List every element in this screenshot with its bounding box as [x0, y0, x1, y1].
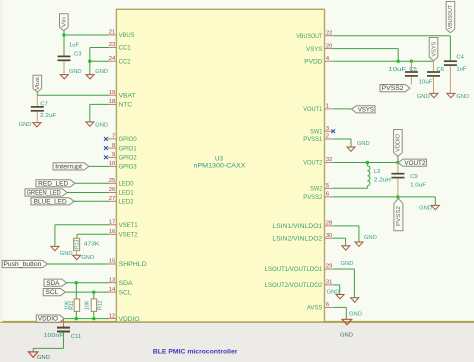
svg-text:22: 22 — [326, 31, 332, 37]
svg-text:SCL: SCL — [45, 290, 59, 296]
svg-text:23: 23 — [109, 42, 115, 48]
svg-text:RED_LED: RED_LED — [38, 181, 69, 187]
svg-text:C4: C4 — [456, 55, 464, 61]
svg-text:31: 31 — [326, 280, 332, 286]
wire Vin to VBUS pin 21 — [66, 34, 109, 36]
ground below CC2 — [86, 75, 94, 79]
svg-text:6: 6 — [326, 302, 329, 308]
svg-text:GPIO3: GPIO3 — [119, 165, 138, 171]
ground below C6 — [430, 93, 438, 97]
svg-text:R12: R12 — [98, 300, 104, 310]
wire CC1-CC2-GND vertical — [89, 48, 91, 75]
node junction VDDIO/R12 — [92, 317, 95, 320]
svg-text:PVSS1: PVSS1 — [303, 137, 323, 143]
svg-text:VBUSOUT: VBUSOUT — [296, 34, 322, 40]
wire VSET2 to R13 — [77, 233, 109, 235]
pin 18 NTC (left) — [108, 103, 117, 105]
ground below C4 — [447, 93, 455, 97]
pin 21 VBUS (left) — [108, 34, 117, 36]
svg-text:10uF: 10uF — [419, 79, 433, 85]
wire AVSS to GND — [333, 306, 346, 308]
wire VDDIO to pin 12 — [65, 318, 109, 320]
svg-text:GND: GND — [364, 235, 377, 241]
capacitor C9 1.0uF — [397, 163, 399, 174]
svg-text:14: 14 — [109, 287, 116, 293]
svg-text:GND: GND — [327, 289, 340, 295]
svg-text:VSYS: VSYS — [358, 107, 374, 113]
svg-text:C6: C6 — [437, 67, 445, 73]
global label Interrupt — [53, 163, 89, 170]
pin 4 PVDD (right) — [325, 60, 334, 62]
ground below C3 — [60, 75, 68, 79]
svg-text:5: 5 — [326, 183, 329, 189]
svg-text:VOUT2: VOUT2 — [303, 161, 323, 167]
svg-text:18: 18 — [109, 99, 115, 105]
wire VOUT1 to VSYS label — [333, 108, 351, 110]
global label BLUE_LED — [31, 198, 74, 205]
svg-text:VOUT2: VOUT2 — [404, 161, 426, 167]
svg-text:9: 9 — [112, 152, 115, 158]
svg-text:19: 19 — [109, 90, 115, 96]
capacitor C5 10uF — [410, 61, 412, 71]
pin 10 GPIO3 (left) — [108, 165, 117, 167]
svg-text:NTC: NTC — [119, 103, 133, 109]
wire R13 to GND — [76, 251, 78, 256]
svg-text:2: 2 — [326, 134, 329, 140]
global label Push_button — [2, 260, 47, 267]
pin 15 SHPHLD (left) — [108, 263, 117, 265]
svg-text:25: 25 — [109, 178, 115, 184]
svg-text:VSYS: VSYS — [431, 41, 437, 57]
svg-text:C9: C9 — [410, 174, 418, 180]
capacitor C6 10uF — [433, 61, 435, 71]
svg-text:GPIO2: GPIO2 — [119, 156, 138, 162]
pin 26 LED1 (left) — [108, 192, 117, 194]
ground below C7 — [33, 123, 41, 127]
pin 12 VDDIO (left) — [108, 318, 117, 320]
svg-text:C11: C11 — [71, 334, 81, 340]
svg-text:SHPHLD: SHPHLD — [119, 262, 148, 268]
svg-text:GND: GND — [341, 261, 354, 267]
svg-text:SCL: SCL — [119, 290, 133, 296]
wire PVDD — [333, 60, 433, 62]
svg-text:LSOUT2/VOUTLDO2: LSOUT2/VOUTLDO2 — [265, 283, 323, 289]
svg-text:1uF: 1uF — [456, 66, 466, 72]
resistor R11 10K — [75, 283, 77, 299]
svg-text:PVSS2: PVSS2 — [382, 86, 405, 92]
pin 25 LED0 (left) — [108, 182, 117, 184]
svg-text:GND: GND — [419, 205, 432, 211]
ground below C11 — [28, 352, 38, 357]
svg-text:GND: GND — [340, 333, 353, 339]
canvas area outside sheet (bottom) — [0, 323, 474, 362]
pin 30 LSIN2/VINLDO2 (right) — [325, 237, 334, 239]
pin 7 GPIO0 (left) — [108, 138, 117, 140]
svg-text:21: 21 — [109, 30, 115, 36]
power symbol VDDIO vertical — [394, 130, 403, 157]
global label VDDIO — [36, 315, 64, 322]
svg-text:GND: GND — [81, 255, 94, 261]
svg-text:2.2uH: 2.2uH — [374, 178, 391, 184]
pin 16 VSET2 (left) — [108, 233, 117, 235]
svg-text:2.2uF: 2.2uF — [40, 113, 56, 119]
wire VOUT2 — [333, 162, 401, 164]
power symbol PVSS2 vertical — [394, 198, 403, 230]
svg-text:C7: C7 — [40, 101, 48, 107]
svg-text:LED2: LED2 — [119, 200, 135, 206]
svg-text:17: 17 — [109, 220, 115, 226]
svg-text:6: 6 — [326, 192, 329, 198]
svg-text:GND: GND — [95, 122, 108, 128]
wire C11 to GND — [63, 332, 65, 348]
svg-text:GND: GND — [456, 94, 469, 100]
no-connect SW1 — [331, 129, 335, 133]
wire VBUSOUT down to C4 — [449, 36, 451, 61]
pin 22 VBUSOUT (right) — [325, 35, 334, 37]
svg-text:R13: R13 — [74, 240, 80, 250]
global label GREEN_LED — [25, 189, 67, 196]
pin 17 VSET1 (left) — [108, 224, 117, 226]
svg-text:100nF: 100nF — [44, 333, 64, 339]
svg-text:nPM1300-CAXX: nPM1300-CAXX — [194, 163, 246, 170]
svg-text:1: 1 — [326, 104, 329, 110]
ground below LSOUT2 — [336, 295, 344, 299]
pin 20 VSYS (right) — [325, 48, 334, 50]
svg-text:SDA: SDA — [119, 281, 133, 287]
pin 8 GPIO1 (left) — [108, 147, 117, 149]
svg-text:16: 16 — [109, 229, 115, 235]
wire PVSS2 — [333, 196, 435, 198]
svg-text:27: 27 — [109, 196, 115, 202]
svg-text:GND: GND — [417, 94, 430, 100]
pin 19 VBAT (left) — [108, 94, 117, 96]
node junction CC2 — [88, 60, 91, 63]
power symbol VBUSOUT — [446, 2, 455, 33]
wire VSET1 to GND — [55, 224, 109, 226]
node junction PVDD/C5 — [410, 60, 413, 63]
wire CC2 — [90, 60, 109, 62]
global label PVSS2 at C5 — [380, 85, 410, 92]
svg-text:C3: C3 — [74, 51, 82, 57]
wire PVSS1 to GND — [333, 138, 351, 140]
ground below LSIN1 — [355, 242, 363, 246]
svg-text:PVSS2: PVSS2 — [303, 195, 323, 201]
svg-text:7: 7 — [112, 134, 115, 140]
ground below PVSS1 — [347, 147, 355, 151]
svg-text:GND: GND — [95, 69, 108, 75]
svg-text:13: 13 — [109, 277, 115, 283]
wire LSIN2 to GND — [333, 237, 345, 239]
IC U3 nPM1300-CAXX body — [116, 9, 324, 322]
wire Vin down to C3 — [63, 31, 65, 56]
svg-text:VSYS: VSYS — [306, 47, 322, 53]
no-connect GPIO2 — [104, 155, 108, 159]
svg-text:AVSS: AVSS — [307, 306, 322, 312]
svg-text:CC1: CC1 — [119, 46, 132, 52]
node junction VDDIO/R11 — [75, 317, 78, 320]
resistor R13 473K — [74, 238, 80, 250]
wire BLUE_LED to LED2 — [73, 200, 108, 202]
node junction PVSS2/C9 — [396, 195, 399, 198]
svg-text:PVDD: PVDD — [304, 59, 323, 65]
capacitor C11 100nF — [63, 319, 65, 327]
svg-text:LED0: LED0 — [119, 182, 135, 188]
svg-text:1uF: 1uF — [69, 43, 79, 49]
svg-text:15: 15 — [109, 259, 115, 265]
ground below R13 — [73, 255, 81, 259]
svg-text:8: 8 — [112, 143, 115, 149]
svg-text:3: 3 — [326, 126, 329, 132]
pin 31 LSOUT2/VOUTLDO2 (right) — [325, 284, 334, 286]
svg-text:VDDIO: VDDIO — [396, 134, 402, 152]
capacitor C4 1uF — [444, 60, 457, 62]
svg-text:L2: L2 — [374, 169, 381, 175]
svg-text:28: 28 — [326, 221, 332, 227]
global label VSYS at VOUT1 — [352, 106, 376, 113]
ground below LSOUT1 — [351, 298, 359, 302]
node junction PVDD/VSYS — [397, 60, 400, 63]
svg-text:VSET2: VSET2 — [119, 233, 139, 239]
global label RED_LED — [36, 180, 75, 187]
inductor L2 2.2uH — [366, 163, 368, 166]
svg-text:Vbat: Vbat — [35, 76, 41, 90]
svg-text:VSET1: VSET1 — [119, 223, 139, 229]
svg-text:LSIN1/VINLDO1: LSIN1/VINLDO1 — [272, 224, 323, 230]
svg-text:BLUE_LED: BLUE_LED — [34, 199, 68, 205]
wire SW2 to L2 — [333, 187, 367, 189]
ground below VSET1 — [51, 246, 59, 250]
ground below LSIN2 — [342, 246, 350, 250]
wire C7 to GND — [36, 112, 38, 123]
pin 9 GPIO2 (left) — [108, 156, 117, 158]
svg-text:Vin: Vin — [62, 17, 68, 27]
pin 27 LED2 (left) — [108, 200, 117, 202]
svg-text:SW2: SW2 — [310, 187, 323, 193]
svg-text:VOUT1: VOUT1 — [303, 107, 323, 113]
left page edge strip — [0, 0, 3, 322]
pin 1 VOUT1 (right) — [325, 108, 334, 110]
svg-text:10uF: 10uF — [388, 67, 407, 73]
pin 3 SW1 (right) — [325, 130, 334, 132]
power symbol VSYS vertical — [429, 38, 438, 61]
wire CC1 — [90, 47, 109, 49]
pin 28 LSIN1/VINLDO1 (right) — [325, 225, 334, 227]
svg-text:U3: U3 — [215, 155, 223, 162]
wire VBUSOUT pin to power tag — [333, 35, 450, 37]
svg-text:SDA: SDA — [46, 281, 59, 287]
svg-text:Push_button: Push_button — [3, 262, 41, 268]
wire Push_button to SHPHLD — [47, 263, 108, 265]
no-connect GPIO1 — [104, 146, 108, 150]
svg-text:C5: C5 — [409, 67, 417, 73]
pin 24 CC2 (left) — [108, 60, 117, 62]
wire PVSS2 to GND — [434, 197, 436, 206]
ground at PVSS2 wire — [431, 205, 439, 209]
svg-text:10K: 10K — [85, 300, 91, 310]
svg-text:GPIO0: GPIO0 — [119, 137, 138, 143]
svg-text:LSOUT1/VOUTLDO1: LSOUT1/VOUTLDO1 — [265, 267, 323, 273]
pin 13 SDA (left) — [108, 282, 117, 284]
wire LSOUT2 to GND — [333, 284, 340, 286]
svg-text:30: 30 — [326, 233, 332, 239]
pin 6 AVSS (right) — [325, 306, 334, 308]
wire Vbat to VBAT pin 19 — [36, 92, 38, 95]
ground below NTC — [86, 122, 94, 126]
svg-text:10: 10 — [109, 161, 115, 167]
svg-text:GND: GND — [37, 355, 50, 361]
pin 29 LSOUT1/VOUTLDO1 (right) — [325, 268, 334, 270]
svg-text:26: 26 — [109, 187, 115, 193]
capacitor C7 — [36, 95, 38, 106]
ground below AVSS at sheet border — [342, 319, 352, 324]
svg-text:SW1: SW1 — [310, 129, 323, 135]
wire VSYS pin 20 — [333, 48, 398, 50]
svg-text:32: 32 — [326, 157, 332, 163]
svg-text:LSIN2/VINLDO2: LSIN2/VINLDO2 — [272, 236, 323, 242]
node junction Vin/VBUS/C3 — [62, 33, 65, 36]
svg-text:VBUS: VBUS — [119, 33, 135, 39]
svg-text:VBAT: VBAT — [119, 93, 136, 99]
wire VDDIO tag to VOUT2 node — [397, 156, 399, 162]
power symbol Vbat — [33, 75, 42, 92]
svg-text:VDDIO: VDDIO — [119, 317, 140, 323]
pin 32 VOUT2 (right) — [325, 162, 334, 164]
svg-text:GREEN_LED: GREEN_LED — [27, 191, 62, 197]
pin 5 SW2 (right) — [325, 187, 334, 189]
svg-text:PVSS2: PVSS2 — [396, 206, 402, 226]
pin 2 PVSS1 (right) — [325, 138, 334, 140]
pin 23 CC1 (left) — [108, 47, 117, 49]
svg-text:GND: GND — [19, 122, 32, 128]
node junction SCL/R12 — [92, 290, 95, 293]
node junction SDA/R11 — [75, 281, 78, 284]
svg-text:BLE PMIC microcontroller: BLE PMIC microcontroller — [153, 349, 238, 356]
wire SCL to pin 14 — [65, 291, 108, 293]
svg-text:12: 12 — [109, 313, 115, 319]
svg-text:473K: 473K — [84, 242, 100, 248]
svg-text:GND: GND — [60, 251, 73, 257]
svg-text:24: 24 — [109, 56, 116, 62]
svg-text:GND: GND — [69, 69, 82, 75]
svg-text:LED1: LED1 — [119, 191, 135, 197]
wire SDA to pin 13 — [66, 282, 108, 284]
node junction VOUT2/C9 — [396, 161, 399, 164]
svg-text:20: 20 — [326, 43, 332, 49]
power symbol Vin — [60, 14, 69, 31]
global label SDA — [44, 279, 67, 286]
svg-text:Interrupt: Interrupt — [55, 165, 82, 171]
svg-text:GPIO1: GPIO1 — [119, 146, 138, 152]
node junction VOUT2/L2 — [366, 161, 369, 164]
wire RED_LED to LED0 — [75, 182, 108, 184]
wire C3 to GND — [63, 61, 65, 75]
sheet border line (bottom) — [0, 321, 474, 323]
svg-text:1.0uF: 1.0uF — [410, 182, 426, 188]
svg-text:R11: R11 — [69, 301, 75, 310]
svg-text:GND: GND — [349, 312, 362, 318]
svg-text:29: 29 — [326, 264, 332, 270]
svg-text:CC2: CC2 — [119, 59, 132, 65]
wire LSIN1 to GND — [333, 225, 359, 227]
resistor R12 10K — [93, 292, 95, 299]
svg-text:GND: GND — [357, 141, 370, 147]
no-connect GPIO0 — [104, 137, 108, 141]
global label SCL — [43, 289, 65, 296]
global label VOUT2 — [398, 159, 426, 166]
wire Interrupt to GPIO3 — [89, 165, 109, 167]
wire GREEN_LED to LED1 — [67, 192, 108, 194]
pin 6 PVSS2 (right) — [325, 196, 334, 198]
pin 14 SCL (left) — [108, 291, 117, 293]
capacitor C3 — [58, 56, 71, 58]
wire LSOUT1 to GND — [333, 268, 354, 270]
wire NTC to GND — [90, 103, 109, 105]
svg-text:VBUSOUT: VBUSOUT — [448, 5, 454, 29]
svg-text:VDDIO: VDDIO — [38, 317, 58, 323]
